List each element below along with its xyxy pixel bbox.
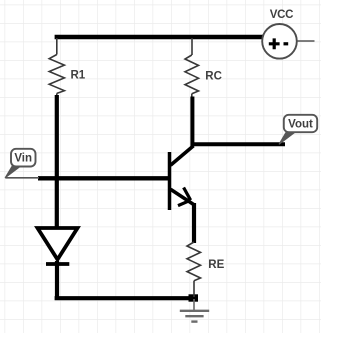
svg-text:RC: RC [205,71,222,83]
svg-text:R1: R1 [71,70,86,82]
svg-text:Vin: Vin [14,153,32,165]
svg-text:Vout: Vout [288,119,313,131]
svg-text:RE: RE [208,259,224,271]
svg-text:VCC: VCC [270,9,293,21]
